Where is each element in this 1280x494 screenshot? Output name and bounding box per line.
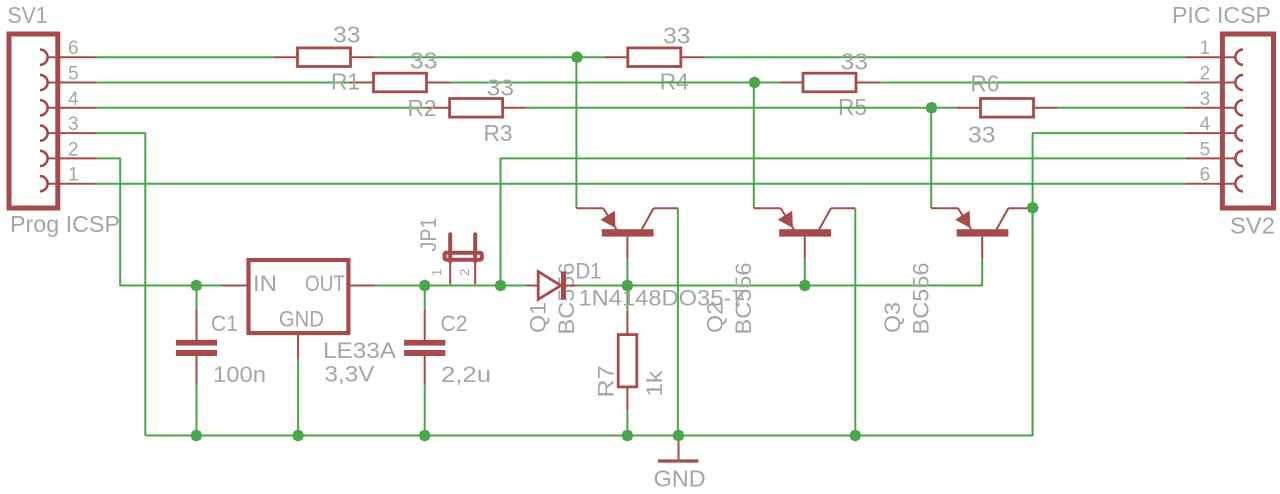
svg-text:R2: R2: [408, 95, 437, 121]
svg-text:SV1: SV1: [8, 2, 48, 28]
svg-text:5: 5: [68, 64, 79, 85]
svg-text:1k: 1k: [642, 370, 667, 397]
svg-text:5: 5: [1200, 139, 1211, 160]
svg-text:LE33A: LE33A: [323, 338, 396, 363]
svg-text:3: 3: [68, 114, 79, 135]
svg-text:33: 33: [333, 22, 361, 48]
svg-text:R7: R7: [594, 366, 619, 398]
svg-text:33: 33: [968, 122, 996, 148]
svg-text:6: 6: [1200, 165, 1211, 186]
svg-text:BC556: BC556: [909, 263, 934, 335]
svg-text:PIC ICSP: PIC ICSP: [1172, 2, 1271, 28]
svg-text:2,2u: 2,2u: [441, 362, 491, 387]
svg-text:3,3V: 3,3V: [325, 361, 375, 386]
svg-text:4: 4: [1200, 114, 1211, 135]
svg-text:33: 33: [663, 23, 691, 49]
svg-text:1: 1: [1200, 38, 1211, 59]
svg-text:1: 1: [68, 165, 79, 186]
svg-text:1N4148DO35-7: 1N4148DO35-7: [579, 285, 745, 310]
svg-text:IN: IN: [253, 271, 277, 296]
svg-text:R1: R1: [331, 69, 360, 95]
svg-text:33: 33: [410, 48, 438, 74]
svg-text:33: 33: [487, 75, 515, 101]
svg-text:3: 3: [1200, 89, 1211, 110]
svg-text:Q1: Q1: [525, 302, 550, 333]
svg-text:33: 33: [841, 49, 869, 75]
svg-text:Prog ICSP: Prog ICSP: [10, 211, 120, 237]
svg-text:SV2: SV2: [1230, 212, 1275, 238]
svg-text:C2: C2: [441, 311, 468, 336]
svg-text:R4: R4: [660, 68, 689, 94]
svg-text:R3: R3: [484, 120, 513, 146]
svg-text:100n: 100n: [213, 362, 266, 387]
svg-text:Q3: Q3: [880, 302, 905, 333]
svg-text:OUT: OUT: [305, 271, 345, 296]
svg-text:C1: C1: [211, 311, 238, 336]
svg-text:2: 2: [457, 269, 472, 276]
svg-text:JP1: JP1: [416, 218, 441, 252]
svg-text:GND: GND: [279, 306, 324, 331]
svg-text:D1: D1: [576, 258, 602, 283]
svg-text:R6: R6: [970, 71, 999, 97]
svg-text:4: 4: [68, 89, 79, 110]
svg-text:2: 2: [1200, 64, 1211, 85]
svg-text:6: 6: [68, 38, 79, 59]
svg-text:1: 1: [429, 269, 444, 276]
svg-text:GND: GND: [654, 466, 706, 492]
svg-text:2: 2: [68, 139, 79, 160]
